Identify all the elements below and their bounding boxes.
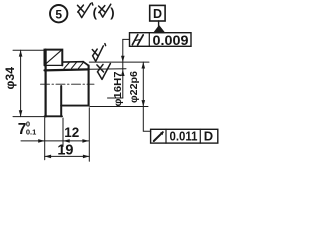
feature control frame parallelism [130, 33, 192, 47]
roughness symbol sym3 [92, 44, 105, 62]
dim 22p6 arrow bottom [142, 100, 146, 106]
chamfer edge [83, 62, 88, 66]
svg-text:φ16H7: φ16H7 [112, 71, 124, 106]
dim 7 and 12 line [21, 140, 89, 142]
roughness symbol sym1 [78, 3, 93, 18]
svg-text:0.009: 0.009 [153, 33, 189, 48]
bore line thick [45, 69, 89, 70]
frame divider [148, 33, 150, 47]
svg-text:0.1: 0.1 [26, 127, 36, 136]
extension line x63 [62, 118, 64, 147]
dim 34 extension top [13, 49, 44, 51]
dim 22p6 arrow top [142, 62, 146, 68]
extension line x44.7 [44, 118, 46, 160]
svg-text:5: 5 [55, 7, 62, 21]
datum box D [150, 5, 165, 21]
svg-text:φ34: φ34 [3, 67, 17, 90]
dim 22p6 line [142, 62, 144, 106]
leader from frame [123, 38, 130, 40]
datum stem [158, 21, 160, 28]
bore extension line [89, 68, 126, 71]
parallelism symbol crossbar [135, 39, 141, 40]
note circled 5 [50, 5, 67, 22]
dim 19 line [45, 155, 90, 157]
dim 34 arrow top [19, 50, 23, 56]
extension line x89.3 [88, 108, 90, 162]
dim 19 arrow left [45, 155, 51, 159]
roughness symbol sym4 [97, 64, 111, 80]
dim 12 arrow right [82, 139, 88, 143]
runout symbol arrowhead [160, 132, 163, 136]
dim 12 arrow left [63, 139, 69, 143]
center line [41, 83, 95, 85]
cylinder right face [88, 66, 90, 106]
svg-text:(: ( [93, 5, 98, 20]
cylinder top edge [62, 61, 83, 63]
svg-text:0.011: 0.011 [170, 129, 198, 144]
dim 22p6 extension bottom [90, 106, 148, 108]
flange right face lower [60, 86, 62, 116]
svg-text:19: 19 [57, 142, 73, 158]
dim 19 arrow right [83, 155, 89, 159]
dim 16H7 arrow up [121, 70, 125, 76]
dim 22p6 extension top [89, 61, 149, 63]
runout feature control frame [151, 129, 218, 143]
flange bottom edge [45, 115, 62, 117]
runout symbol [154, 132, 163, 141]
frame dividers [166, 129, 200, 143]
svg-text:φ22p6: φ22p6 [128, 71, 140, 103]
dim 34 extension bottom [13, 116, 44, 118]
parallelism symbol [132, 35, 143, 45]
dim 34 line [20, 50, 22, 116]
svg-text:12: 12 [64, 125, 79, 140]
svg-text:): ) [110, 5, 114, 20]
roughness symbol sym2 [99, 4, 111, 17]
flange section block [45, 50, 63, 66]
svg-text:D: D [204, 129, 213, 144]
datum triangle [154, 26, 165, 33]
leader arrow down [121, 56, 125, 62]
wall hatch lines [64, 62, 84, 68]
svg-text:D: D [153, 7, 162, 21]
cylinder bottom edge [61, 105, 88, 107]
dim 34 arrow bottom [19, 110, 23, 116]
dim 7 arrow left [38, 139, 44, 143]
leader vertical line [122, 39, 124, 98]
dim 16H7 bottom extension stub [108, 97, 123, 99]
flange hatch [46, 51, 61, 64]
runout leader vertical [143, 107, 151, 132]
flange left edge [44, 50, 46, 117]
